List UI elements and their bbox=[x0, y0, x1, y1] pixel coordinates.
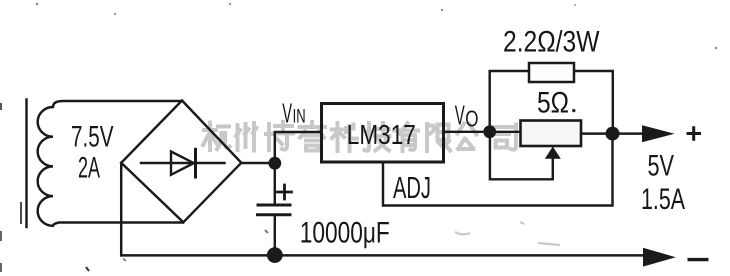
svg-text:7.5V: 7.5V bbox=[71, 121, 114, 154]
printed period after 5 ohm label bbox=[572, 109, 575, 112]
box fills (under watermark) bbox=[322, 104, 444, 163]
svg-text:ADJ: ADJ bbox=[393, 170, 431, 205]
wiper stem wire bbox=[490, 135, 553, 179]
scan speck top dot c bbox=[229, 3, 231, 5]
bottom bus wire bbox=[121, 254, 643, 256]
wire node up to VIN pin bbox=[275, 132, 322, 163]
scan smudges right of 10000uF bbox=[455, 222, 560, 245]
diode inside bridge bbox=[141, 162, 225, 164]
svg-text:LM317: LM317 bbox=[347, 119, 416, 150]
wire capacitor to bottom bus bbox=[274, 215, 276, 255]
scan speck near diamond bottom bbox=[265, 230, 268, 233]
scan speck left edge top bbox=[0, 103, 2, 110]
svg-text:O: O bbox=[465, 105, 478, 131]
capacitor C1 plates bbox=[258, 204, 290, 207]
watermark char 将 bbox=[266, 122, 293, 150]
scan speck top dot d bbox=[441, 9, 443, 11]
output wire to arrow bbox=[613, 132, 644, 134]
watermark char 公 bbox=[458, 124, 477, 150]
wire left node up to 2.2ohm branch bbox=[490, 71, 529, 132]
junction dot: output right node bbox=[606, 127, 620, 141]
watermark char 睿 bbox=[300, 122, 326, 151]
wire pot right side to output node bbox=[581, 132, 613, 134]
wire bridge left vertex down bbox=[120, 163, 122, 256]
watermark char 有 bbox=[394, 123, 418, 151]
svg-text:1.5A: 1.5A bbox=[641, 183, 685, 216]
potentiometer wiper arrow bbox=[545, 147, 561, 159]
scan speck upper dot bbox=[114, 13, 116, 15]
watermark char 限 bbox=[427, 124, 450, 151]
output arrow minus terminal bbox=[643, 248, 676, 267]
wire 2.2ohm to right node bbox=[574, 71, 613, 134]
svg-text:2.2Ω/3W: 2.2Ω/3W bbox=[503, 26, 600, 59]
scan speck below bus left bbox=[123, 259, 126, 262]
ADJ pin wire bbox=[383, 134, 613, 206]
watermark char 科 bbox=[332, 123, 358, 151]
svg-text:10000μF: 10000μF bbox=[300, 217, 390, 250]
transformer core bar bbox=[25, 100, 27, 228]
capacitor plus sign bbox=[278, 185, 292, 199]
svg-text:V: V bbox=[455, 100, 465, 131]
watermark char 州 bbox=[236, 123, 257, 151]
svg-text:2A: 2A bbox=[78, 152, 100, 185]
potentiometer RP 5 ohm body bbox=[521, 121, 582, 147]
bridge rectifier diamond bbox=[121, 101, 241, 223]
scan speck top dot e bbox=[574, 4, 576, 6]
scan speck left edge middle bbox=[20, 202, 22, 224]
resistor R1 2.2 ohm body bbox=[529, 63, 574, 82]
transformer secondary winding coil bbox=[38, 101, 183, 226]
LM317 box U1 bbox=[322, 104, 444, 163]
plus sign output bbox=[687, 126, 702, 141]
svg-text:5Ω: 5Ω bbox=[537, 87, 569, 120]
minus sign output bbox=[688, 258, 709, 261]
VO pin wire bbox=[444, 131, 521, 133]
svg-text:V: V bbox=[282, 97, 292, 128]
scan speck right dot bbox=[715, 47, 718, 50]
svg-text:IN: IN bbox=[293, 106, 306, 127]
svg-text:5V: 5V bbox=[648, 150, 675, 183]
watermark char 杭 bbox=[203, 123, 230, 151]
junction dot: capacitor to bus bbox=[267, 247, 283, 263]
wire bridge right vertex to node bbox=[241, 162, 275, 164]
watermark char 司 bbox=[493, 125, 516, 150]
watermark char 技 bbox=[365, 123, 390, 151]
scan speck top left dot bbox=[36, 3, 39, 6]
output arrow plus terminal bbox=[642, 125, 675, 142]
junction dot: bridge output node bbox=[268, 157, 281, 170]
junction dot: VO left node bbox=[483, 125, 496, 138]
scan speck check mark bottom bbox=[86, 267, 89, 271]
scan speck left edge bottom bbox=[0, 231, 2, 272]
wire node down to capacitor bbox=[274, 163, 276, 205]
